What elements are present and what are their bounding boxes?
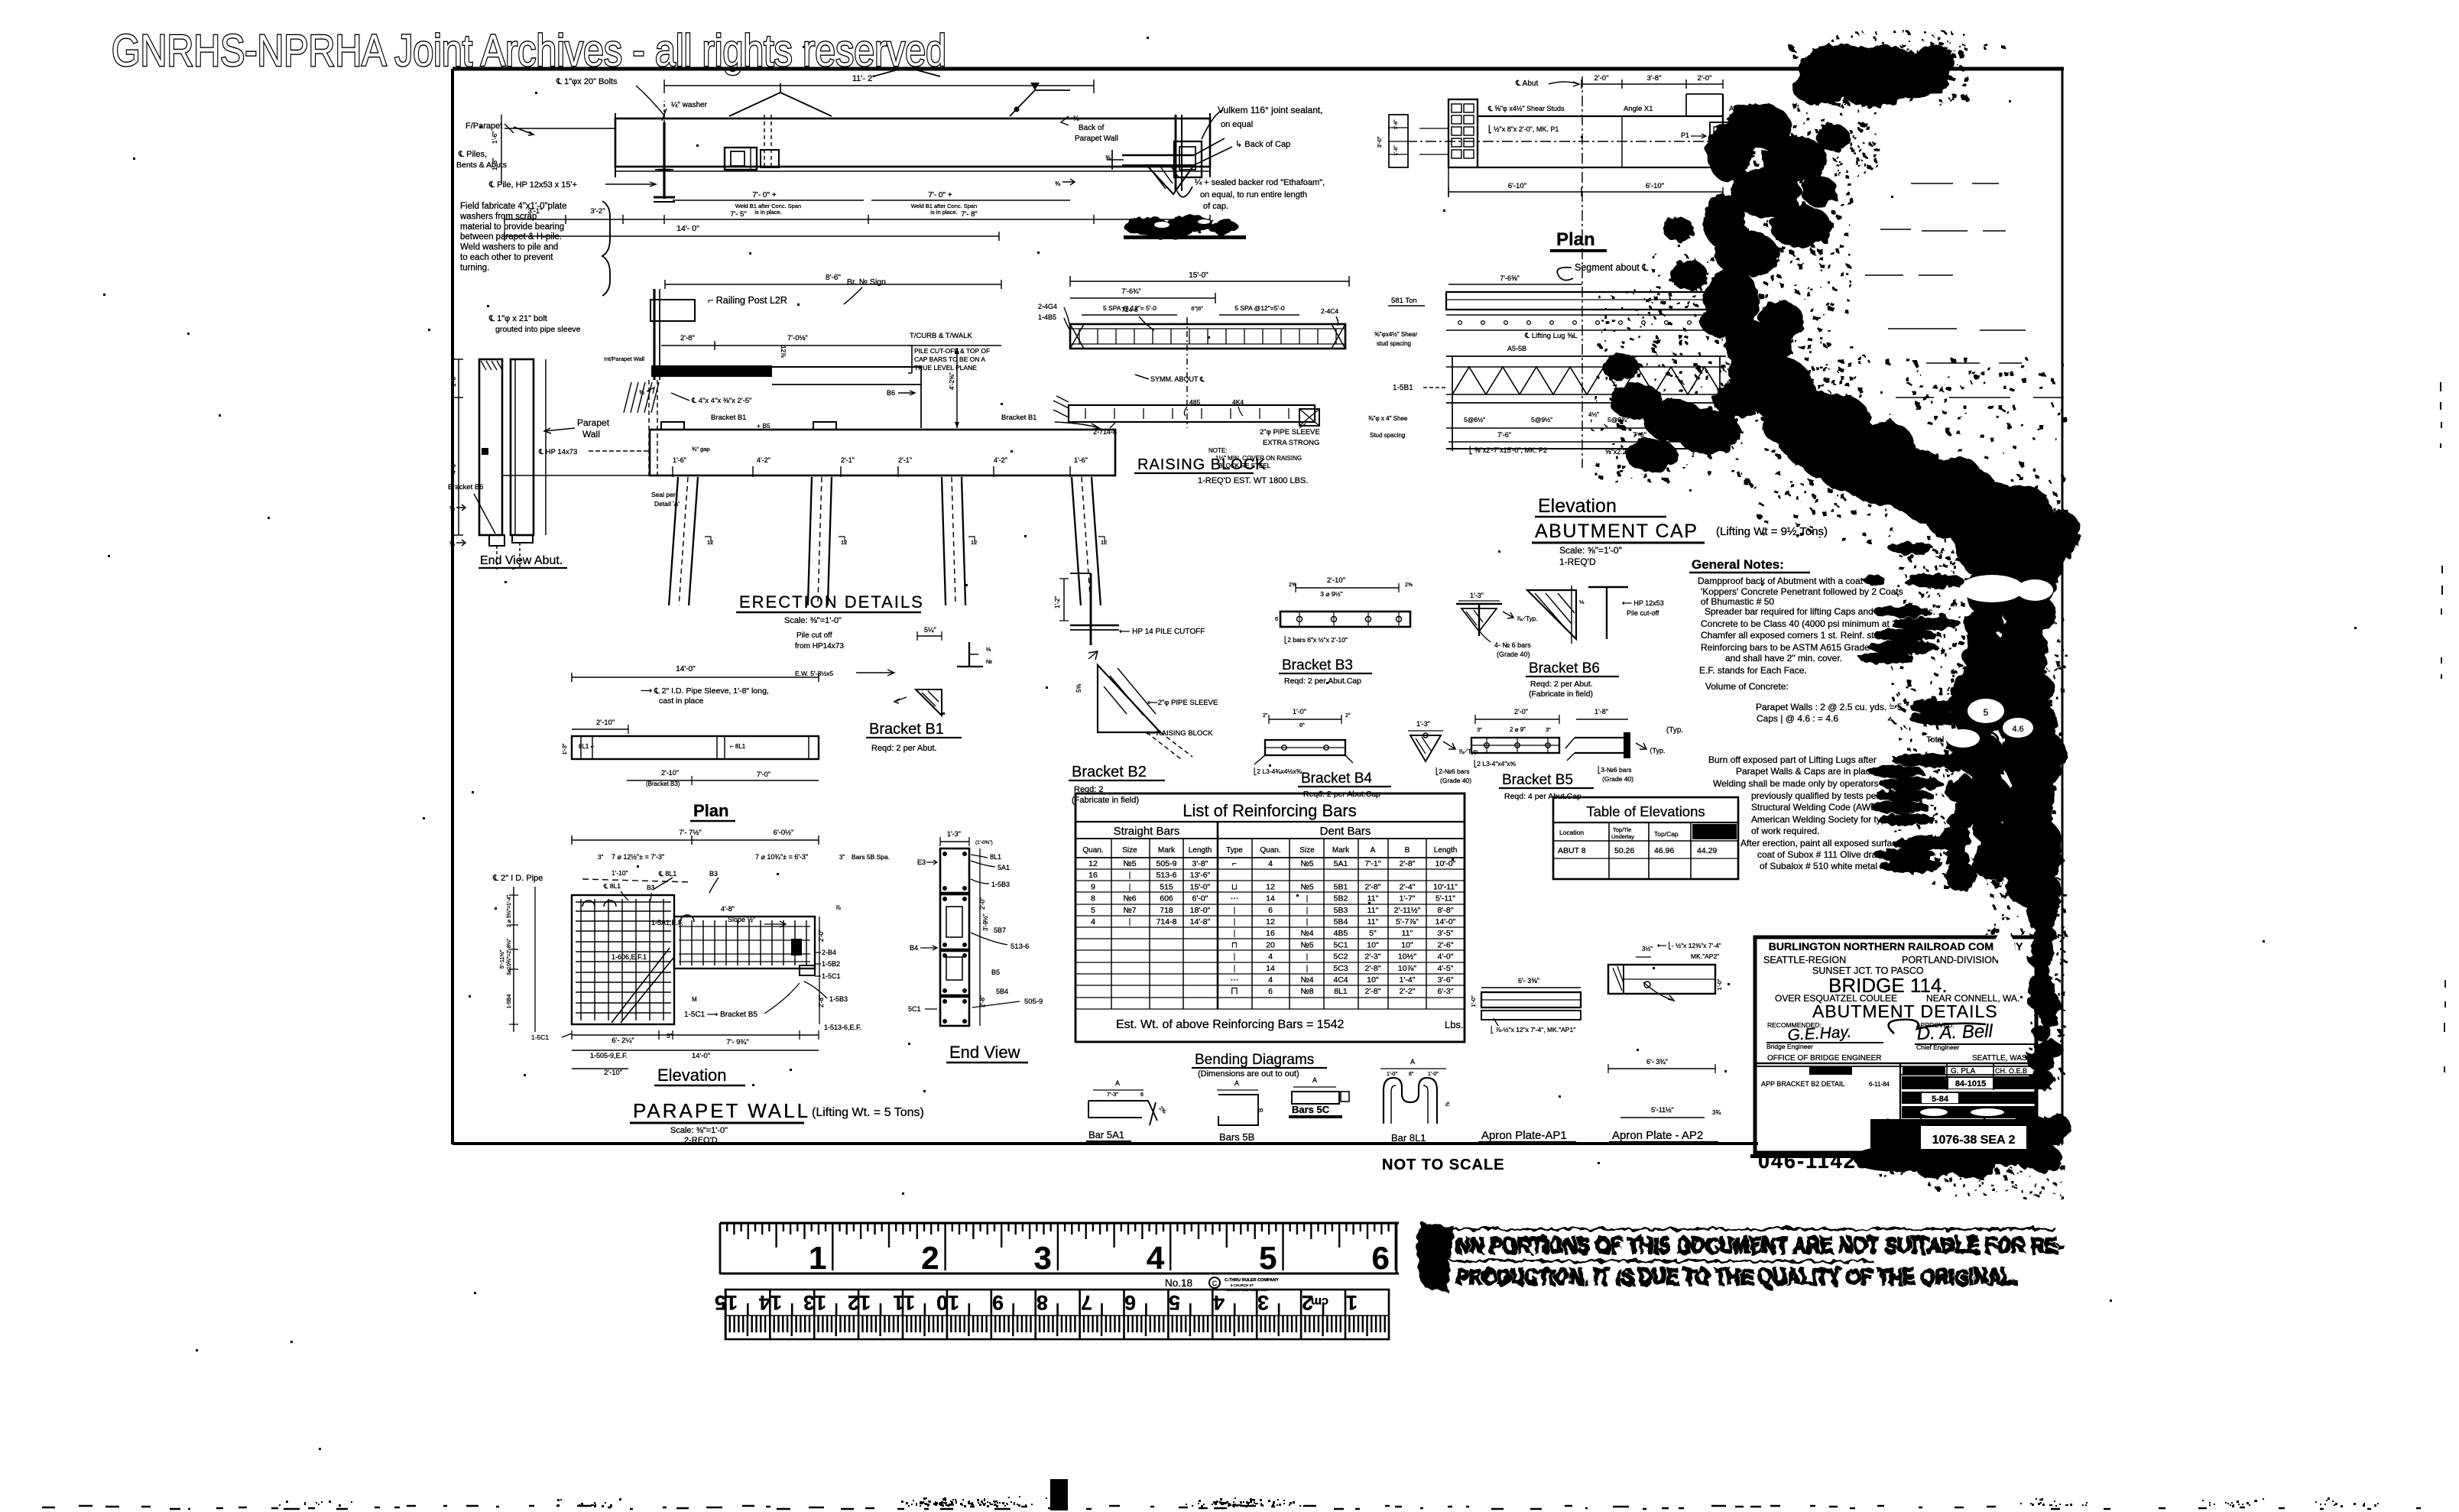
svg-text:3": 3" — [667, 1033, 672, 1040]
reproduction stamp — [1417, 1223, 2064, 1292]
svg-text:|: | — [1234, 906, 1236, 915]
svg-text:Bridge Engineer: Bridge Engineer — [1766, 1043, 1813, 1050]
svg-text:T/CURB & T/WALK: T/CURB & T/WALK — [910, 332, 972, 340]
svg-text:4'-5": 4'-5" — [1438, 964, 1454, 973]
svg-text:⎣ ⅝"x2'-7"x15'-0", MK. P2: ⎣ ⅝"x2'-7"x15'-0", MK. P2 — [1469, 446, 1547, 455]
svg-text:⟵2"φ PIPE SLEEVE: ⟵2"φ PIPE SLEEVE — [1147, 699, 1218, 707]
svg-text:4½": 4½" — [1588, 411, 1599, 418]
svg-text:|: | — [1306, 917, 1309, 926]
svg-text:1: 1 — [1346, 1291, 1358, 1314]
svg-text:Quan.: Quan. — [1260, 846, 1280, 855]
svg-text:2'-3": 2'-3" — [1365, 952, 1381, 962]
svg-text:Mark: Mark — [1332, 846, 1350, 855]
svg-text:14'-0": 14'-0" — [692, 1052, 710, 1060]
svg-text:2'-0": 2'-0" — [818, 930, 825, 942]
svg-text:Detail 'A': Detail 'A' — [654, 500, 680, 508]
svg-text:2'-8": 2'-8" — [1400, 859, 1416, 868]
svg-text:Field fabricate 4"x1'-0"plate: Field fabricate 4"x1'-0"plate — [460, 202, 567, 211]
svg-text:|: | — [1234, 964, 1236, 973]
svg-text:10": 10" — [1367, 940, 1379, 949]
svg-text:5@9½": 5@9½" — [1531, 416, 1552, 423]
svg-text:⟨Typ.: ⟨Typ. — [1650, 747, 1666, 754]
svg-text:1: 1 — [809, 1240, 826, 1276]
svg-text:Bracket B6: Bracket B6 — [1529, 660, 1600, 677]
svg-text:5 SPA @12"=5'-0: 5 SPA @12"=5'-0 — [1234, 304, 1285, 312]
svg-text:on equal, to run entire length: on equal, to run entire length — [1200, 190, 1307, 200]
svg-text:9: 9 — [1091, 882, 1095, 891]
svg-text:3": 3" — [1546, 726, 1551, 733]
svg-text:3": 3" — [839, 854, 845, 861]
svg-text:2'-0": 2'-0" — [1514, 708, 1528, 715]
svg-text:2'-0": 2'-0" — [1594, 74, 1609, 83]
svg-text:5'-11½": 5'-11½" — [498, 949, 505, 969]
svg-text:2'-8": 2'-8" — [1365, 882, 1381, 891]
svg-text:⟵RAISING BLOCK: ⟵RAISING BLOCK — [1146, 729, 1213, 738]
svg-text:3'-6": 3'-6" — [1438, 975, 1454, 985]
note tail smears — [1859, 542, 1964, 873]
svg-text:11: 11 — [893, 1291, 915, 1314]
white bays in blob — [1960, 575, 2024, 602]
svg-text:16: 16 — [1266, 929, 1275, 938]
svg-text:2-REQ'D: 2-REQ'D — [684, 1136, 718, 1145]
svg-text:3 ⌀ 9½": 3 ⌀ 9½" — [1320, 590, 1342, 598]
svg-text:1-REQ'D EST. WT 1800 LBS.: 1-REQ'D EST. WT 1800 LBS. — [1198, 476, 1308, 485]
svg-text:1-REQ'D: 1-REQ'D — [1559, 556, 1596, 567]
svg-text:Table of Elevations: Table of Elevations — [1586, 803, 1705, 819]
svg-text:2-4G4: 2-4G4 — [1038, 303, 1057, 310]
svg-text:2'-6": 2'-6" — [1438, 940, 1454, 949]
svg-text:of work required.: of work required. — [1751, 826, 1819, 836]
svg-text:20: 20 — [1266, 940, 1275, 949]
svg-text:11": 11" — [1367, 894, 1379, 904]
svg-text:4: 4 — [1147, 1240, 1165, 1276]
svg-text:cm: cm — [1311, 1295, 1328, 1308]
svg-text:6-11-84: 6-11-84 — [1869, 1081, 1890, 1088]
svg-text:485: 485 — [1189, 398, 1200, 406]
svg-text:1-5B1: 1-5B1 — [1393, 384, 1413, 392]
svg-text:5B4: 5B4 — [1334, 917, 1348, 926]
svg-text:|: | — [1129, 917, 1131, 926]
svg-text:6'-0": 6'-0" — [1192, 894, 1208, 904]
svg-text:581 Ton: 581 Ton — [1391, 297, 1417, 305]
svg-text:grouted into pipe sleeve: grouted into pipe sleeve — [495, 325, 581, 334]
svg-text:|: | — [1306, 952, 1309, 962]
svg-text:2'-8": 2'-8" — [818, 995, 825, 1007]
svg-text:3¾: 3¾ — [1712, 1109, 1721, 1116]
svg-text:11": 11" — [1367, 906, 1379, 915]
svg-text:APP BRACKET B2 DETAIL: APP BRACKET B2 DETAIL — [1761, 1080, 1845, 1088]
svg-text:11": 11" — [1402, 929, 1413, 938]
svg-text:B4: B4 — [910, 944, 918, 952]
svg-text:6'-0½": 6'-0½" — [774, 829, 794, 837]
svg-text:2'-11½": 2'-11½" — [1394, 906, 1421, 915]
svg-text:1'-3": 1'-3" — [561, 743, 568, 754]
svg-text:Bars 5B Spa.: Bars 5B Spa. — [852, 853, 890, 861]
svg-text:TRUE LEVEL PLANE: TRUE LEVEL PLANE — [914, 364, 977, 372]
svg-text:6: 6 — [1268, 987, 1273, 996]
svg-text:Scale: ⅜"=1'-0": Scale: ⅜"=1'-0" — [670, 1126, 728, 1135]
svg-text:1-5B3: 1-5B3 — [991, 881, 1010, 888]
svg-text:A: A — [1234, 1079, 1239, 1087]
svg-text:2'-1": 2'-1" — [898, 456, 912, 464]
svg-text:2'-10": 2'-10" — [596, 719, 615, 727]
svg-text:6'-10": 6'-10" — [1646, 182, 1664, 190]
svg-text:B: B — [1257, 1108, 1264, 1112]
svg-text:3": 3" — [1477, 726, 1482, 733]
svg-text:4: 4 — [1091, 917, 1095, 926]
svg-text:№4: №4 — [1300, 975, 1313, 985]
svg-text:|: | — [1234, 929, 1236, 938]
svg-text:(Fabricate in field): (Fabricate in field) — [1072, 796, 1139, 805]
svg-text:|: | — [1129, 882, 1131, 891]
svg-text:⅜: ⅜ — [1055, 180, 1061, 187]
svg-text:4C4: 4C4 — [1333, 975, 1348, 985]
svg-text:SEATTLE, WASH.: SEATTLE, WASH. — [1972, 1054, 2035, 1063]
svg-text:10½": 10½" — [1398, 952, 1416, 962]
svg-text:Back of: Back of — [1079, 124, 1105, 132]
svg-text:Dampproof back of Abutment wi: Dampproof back of Abutment with a coat o… — [1698, 576, 1873, 586]
svg-text:℄ 4"x 4"x ⅜"x 2'-5": ℄ 4"x 4"x ⅜"x 2'-5" — [691, 397, 751, 405]
svg-text:2": 2" — [1345, 713, 1351, 719]
svg-text:3'-8": 3'-8" — [1647, 74, 1662, 83]
svg-text:2'-8": 2'-8" — [1365, 987, 1381, 996]
svg-text:Lbs.: Lbs. — [1445, 1019, 1464, 1030]
svg-text:1-5C1: 1-5C1 — [822, 972, 841, 980]
svg-text:046-11428: 046-11428 — [1758, 1150, 1870, 1173]
svg-text:2'-0": 2'-0" — [1698, 74, 1712, 83]
svg-text:⋯: ⋯ — [1231, 894, 1239, 904]
svg-text:6 CHURCH ST: 6 CHURCH ST — [1231, 1283, 1254, 1287]
svg-text:Chief Engineer: Chief Engineer — [1916, 1043, 1959, 1051]
svg-text:G.E.Hay.: G.E.Hay. — [1787, 1024, 1852, 1044]
svg-text:1'-0": 1'-0" — [450, 375, 457, 387]
svg-text:7'-0⅛": 7'-0⅛" — [787, 334, 808, 342]
blob over title block bottom — [1879, 1114, 2071, 1199]
inch ruler — [720, 1223, 1399, 1292]
svg-text:4'-2": 4'-2" — [757, 456, 770, 464]
svg-text:10": 10" — [1401, 940, 1413, 949]
svg-text:714-8: 714-8 — [1121, 306, 1138, 313]
svg-text:№5: №5 — [1123, 859, 1136, 868]
svg-text:3½": 3½" — [1642, 946, 1653, 952]
svg-text:5B1: 5B1 — [1334, 882, 1348, 891]
apron plate AP1 — [1470, 977, 1581, 1142]
field fabricate note — [459, 201, 610, 296]
svg-text:Bents & Abuts: Bents & Abuts — [456, 161, 507, 170]
svg-text:3 ⌀ 5¼"=1'-4": 3 ⌀ 5¼"=1'-4" — [507, 894, 512, 927]
svg-text:50.26: 50.26 — [1614, 846, 1634, 855]
svg-text:Wall: Wall — [582, 429, 600, 440]
svg-text:Reinforcing bars to be ASTM A6: Reinforcing bars to be ASTM A615 Grade 4… — [1701, 642, 1883, 653]
svg-text:℄ 2" I D. Pipe: ℄ 2" I D. Pipe — [492, 874, 543, 883]
svg-text:5@6½": 5@6½" — [1464, 416, 1485, 423]
svg-text:MK."AP2": MK."AP2" — [1691, 952, 1719, 960]
svg-text:⅞⟋Typ.: ⅞⟋Typ. — [1458, 748, 1479, 755]
046 number — [1750, 1147, 1949, 1173]
svg-text:CH. O.E.B: CH. O.E.B — [1995, 1067, 2027, 1075]
svg-text:14'-0": 14'-0" — [676, 665, 696, 673]
svg-text:515: 515 — [1160, 882, 1173, 891]
svg-text:on equal: on equal — [1221, 120, 1253, 129]
svg-text:Parapet Walls : 2 @ 2.5 cu. yd: Parapet Walls : 2 @ 2.5 cu. yds. = 5 — [1756, 702, 1903, 712]
svg-text:2-B4: 2-B4 — [822, 949, 836, 956]
svg-text:4'-2⅝": 4'-2⅝" — [949, 372, 955, 390]
svg-text:⎣2 L3-4"x4"x⅝: ⎣2 L3-4"x4"x⅝ — [1474, 759, 1517, 768]
svg-text:3'-2": 3'-2" — [591, 207, 605, 216]
svg-text:⅔: ⅔ — [986, 646, 991, 653]
svg-text:(Dimensions are out to out): (Dimensions are out to out) — [1198, 1069, 1299, 1079]
bracket B5 — [1471, 708, 1666, 801]
svg-text:8: 8 — [1036, 1291, 1048, 1314]
svg-text:PORTLAND-DIVISION: PORTLAND-DIVISION — [1902, 955, 1999, 965]
svg-text:1'-4": 1'-4" — [1400, 975, 1416, 985]
svg-text:5'-7⅞": 5'-7⅞" — [1396, 917, 1419, 926]
svg-text:(Grade 40): (Grade 40) — [1440, 777, 1471, 784]
svg-text:|: | — [1306, 964, 1309, 973]
svg-text:⎣2 bars 6"x ½"x 2'-10": ⎣2 bars 6"x ½"x 2'-10" — [1284, 635, 1348, 644]
svg-text:7'- 0" +: 7'- 0" + — [752, 191, 776, 200]
svg-text:4K4: 4K4 — [1232, 398, 1244, 406]
bottom edge noise — [42, 1479, 2421, 1510]
svg-text:1'-7": 1'-7" — [1400, 894, 1416, 904]
svg-text:F/Parapet: F/Parapet — [466, 122, 502, 131]
svg-text:Vulkem 116° joint sealant,: Vulkem 116° joint sealant, — [1218, 105, 1323, 115]
svg-text:5: 5 — [1091, 906, 1095, 915]
svg-text:|: | — [1234, 952, 1236, 962]
svg-text:1'-3": 1'-3" — [947, 830, 961, 838]
svg-text:(1'-0¾"): (1'-0¾") — [975, 840, 993, 845]
svg-text:12: 12 — [1101, 539, 1107, 546]
svg-text:2'-0": 2'-0" — [979, 897, 986, 910]
svg-text:Parapet Walls & Caps are in pl: Parapet Walls & Caps are in place. — [1736, 766, 1878, 777]
svg-text:8": 8" — [1409, 1072, 1414, 1077]
svg-text:No.18: No.18 — [1165, 1277, 1192, 1289]
svg-text:Type: Type — [1226, 846, 1243, 855]
svg-text:3'-0": 3'-0" — [1376, 136, 1383, 148]
svg-text:8: 8 — [1091, 894, 1095, 904]
svg-text:ABUTMENT CAP: ABUTMENT CAP — [1535, 521, 1698, 542]
svg-text:⨅: ⨅ — [1231, 987, 1238, 996]
svg-text:Bracket B1: Bracket B1 — [1001, 414, 1036, 422]
svg-text:Scale: ⅝"=1'-0": Scale: ⅝"=1'-0" — [1559, 545, 1622, 556]
svg-text:6'-3": 6'-3" — [1438, 987, 1454, 996]
abutment cap elevation — [1368, 76, 1726, 468]
svg-text:10⅞": 10⅞" — [1398, 964, 1416, 973]
svg-text:2⅝: 2⅝ — [1405, 582, 1413, 588]
svg-text:2'-1": 2'-1" — [841, 456, 855, 464]
svg-text:1'-2": 1'-2" — [1054, 596, 1061, 608]
svg-text:505-9: 505-9 — [1157, 859, 1177, 868]
scanner artifact blob — [1591, 31, 2081, 1089]
svg-text:A5-5B: A5-5B — [1507, 345, 1526, 352]
svg-text:B3: B3 — [709, 870, 718, 878]
svg-text:7'-6¾": 7'-6¾" — [1121, 287, 1140, 295]
sheet border — [453, 67, 2064, 71]
svg-text:1'-0": 1'-0" — [1428, 1072, 1439, 1077]
svg-text:1-5C1: 1-5C1 — [531, 1033, 549, 1041]
svg-text:5⅝: 5⅝ — [1075, 684, 1082, 693]
svg-text:Seal per: Seal per — [651, 491, 676, 498]
svg-text:⅞: ⅞ — [835, 904, 841, 911]
svg-text:Parapet: Parapet — [577, 417, 610, 428]
svg-text:(Bracket B3): (Bracket B3) — [646, 780, 680, 787]
svg-text:№5: №5 — [1300, 882, 1313, 891]
svg-text:2 ⌀ 9": 2 ⌀ 9" — [1510, 726, 1526, 733]
svg-text:2: 2 — [921, 1240, 939, 1276]
svg-text:3: 3 — [1034, 1240, 1052, 1276]
svg-text:3'-5": 3'-5" — [1438, 929, 1454, 938]
svg-text:Length: Length — [1434, 846, 1458, 855]
cm ruler inverted — [715, 1290, 1389, 1339]
svg-text:(Grade 40): (Grade 40) — [1602, 775, 1633, 783]
svg-text:4: 4 — [1268, 975, 1273, 985]
svg-text:2'-8": 2'-8" — [1365, 964, 1381, 973]
svg-text:Elevation: Elevation — [657, 1066, 727, 1085]
svg-text:2'-10": 2'-10" — [604, 1069, 622, 1077]
svg-text:C-THRU RULER COMPANY: C-THRU RULER COMPANY — [1225, 1278, 1279, 1283]
svg-text:7'-0": 7'-0" — [757, 771, 770, 778]
svg-text:℄ 1"φx 20" Bolts: ℄ 1"φx 20" Bolts — [556, 77, 618, 86]
svg-text:4'-8": 4'-8" — [721, 905, 735, 913]
svg-text:1-5C1 ⟶ Bracket B5: 1-5C1 ⟶ Bracket B5 — [684, 1011, 757, 1019]
svg-text:of Bhumastic # 50: of Bhumastic # 50 — [1701, 596, 1774, 607]
HP14 pile cutoff — [1054, 573, 1205, 645]
svg-text:2'-8": 2'-8" — [680, 334, 695, 342]
svg-text:⟵ ⎣- ½"x 12⅝"x 7'-4": ⟵ ⎣- ½"x 12⅝"x 7'-4" — [1657, 941, 1721, 950]
svg-text:⌐: ⌐ — [1232, 859, 1237, 868]
svg-text:4- № 6 bars: 4- № 6 bars — [1494, 641, 1531, 649]
svg-text:⅜: ⅜ — [1073, 115, 1079, 122]
svg-text:Bars 5C: Bars 5C — [1292, 1104, 1330, 1115]
bending diagrams — [1086, 1052, 1451, 1144]
svg-text:5'-11": 5'-11" — [1435, 894, 1455, 904]
svg-text:M: M — [692, 996, 697, 1003]
svg-text:List of Reinforcing Bars: List of Reinforcing Bars — [1182, 801, 1356, 820]
svg-text:washers from scrap: washers from scrap — [459, 212, 537, 221]
bracket B2 detail — [1069, 651, 1218, 805]
svg-text:1076-38 SEA 2: 1076-38 SEA 2 — [1932, 1134, 2016, 1147]
svg-text:A: A — [1312, 1076, 1317, 1084]
svg-text:5: 5 — [1259, 1240, 1277, 1276]
svg-text:℄ 1"φ x 21" bolt: ℄ 1"φ x 21" bolt — [488, 314, 547, 323]
svg-text:6: 6 — [1124, 1291, 1136, 1314]
svg-text:⎣3-№6 bars: ⎣3-№6 bars — [1598, 765, 1632, 774]
svg-text:|: | — [1129, 871, 1131, 880]
svg-text:18'-0": 18'-0" — [1190, 906, 1211, 915]
svg-text:A: A — [1410, 1058, 1415, 1066]
svg-text:℄ Lifting Lug ⅝L: ℄ Lifting Lug ⅝L — [1524, 332, 1577, 340]
svg-text:7'-3": 7'-3" — [1107, 1091, 1118, 1098]
svg-text:4: 4 — [1268, 859, 1273, 868]
svg-text:⌐ 8L1: ⌐ 8L1 — [730, 743, 746, 750]
svg-text:2'-2": 2'-2" — [1400, 987, 1416, 996]
bracket B4 — [1254, 708, 1479, 799]
svg-text:of cap.: of cap. — [1203, 202, 1228, 211]
svg-text:C: C — [1212, 1280, 1218, 1287]
svg-text:Straight Bars: Straight Bars — [1114, 825, 1180, 838]
svg-text:513-6: 513-6 — [1011, 943, 1029, 951]
svg-text:6'- 3¾": 6'- 3¾" — [1646, 1058, 1668, 1066]
svg-text:44.29: 44.29 — [1697, 846, 1717, 855]
svg-text:|: | — [1234, 917, 1236, 926]
svg-text:Bracket B4: Bracket B4 — [1301, 771, 1372, 787]
svg-text:714-8: 714-8 — [1157, 917, 1177, 926]
svg-text:Size: Size — [1299, 846, 1315, 855]
svg-text:¾" gap: ¾" gap — [692, 446, 710, 453]
raising block — [1038, 271, 1349, 485]
svg-text:Parapet Wall: Parapet Wall — [1075, 135, 1118, 143]
svg-text:1'-10": 1'-10" — [612, 869, 628, 877]
svg-text:Plan: Plan — [693, 801, 728, 820]
svg-text:8L1 ⌐: 8L1 ⌐ — [579, 743, 595, 750]
svg-text:Bracket B1: Bracket B1 — [869, 721, 944, 738]
svg-text:8L1: 8L1 — [1334, 987, 1348, 996]
svg-text:Underlay: Underlay — [1611, 833, 1634, 840]
svg-text:previously qualified by tests: previously qualified by tests per — [1751, 790, 1879, 801]
svg-text:PRODUCTION. IT IS DUE TO THE Q: PRODUCTION. IT IS DUE TO THE QUALITY OF … — [1456, 1265, 2018, 1290]
erection details title — [736, 592, 992, 753]
svg-text:1'-8": 1'-8" — [1594, 708, 1608, 715]
svg-text:Quan.: Quan. — [1082, 846, 1103, 855]
svg-text:Top/Cap: Top/Cap — [1654, 830, 1679, 838]
svg-text:is in place.: is in place. — [754, 209, 781, 216]
svg-text:(Typ.: (Typ. — [1666, 726, 1683, 735]
svg-text:Pile cut off: Pile cut off — [796, 631, 832, 640]
svg-text:Bracket B5: Bracket B5 — [1502, 772, 1573, 788]
svg-text:℄ HP 14x73: ℄ HP 14x73 — [538, 448, 577, 456]
svg-text:14'-0": 14'-0" — [1435, 917, 1456, 926]
svg-text:16: 16 — [1088, 871, 1098, 880]
svg-text:11": 11" — [1367, 917, 1379, 926]
svg-text:℄ 8L1: ℄ 8L1 — [603, 882, 621, 890]
svg-text:⟶ ℄ 2" I.D. Pipe Sleeve, 1'-8: ⟶ ℄ 2" I.D. Pipe Sleeve, 1'-8" long, — [641, 686, 769, 696]
svg-text:2"φ PIPE SLEEVE: 2"φ PIPE SLEEVE — [1260, 428, 1320, 436]
bracket B6 — [1526, 586, 1664, 699]
bracket B3 — [1275, 576, 1537, 686]
svg-text:12: 12 — [1266, 917, 1275, 926]
svg-text:End View Abut.: End View Abut. — [480, 554, 563, 567]
svg-text:+ B5: + B5 — [757, 422, 770, 430]
svg-text:SEATTLE-REGION: SEATTLE-REGION — [1763, 955, 1846, 965]
svg-text:General Notes:: General Notes: — [1692, 557, 1784, 572]
svg-text:and shall have 2" min. cover.: and shall have 2" min. cover. — [1725, 653, 1842, 664]
svg-text:Bending Diagrams: Bending Diagrams — [1195, 1052, 1314, 1068]
svg-text:1-5B4: 1-5B4 — [507, 994, 512, 1009]
svg-text:℄ 8L1: ℄ 8L1 — [658, 870, 676, 878]
svg-text:ERECTION DETAILS: ERECTION DETAILS — [739, 592, 924, 612]
svg-text:A: A — [1115, 1079, 1120, 1087]
svg-text:Bars 5B: Bars 5B — [1219, 1131, 1254, 1143]
svg-text:PILE CUT-OFF & TOP OF: PILE CUT-OFF & TOP OF — [914, 347, 990, 355]
svg-text:7: 7 — [1081, 1291, 1092, 1314]
svg-text:46.96: 46.96 — [1654, 846, 1674, 855]
svg-text:7'- 5": 7'- 5" — [730, 210, 747, 219]
svg-text:ABUTMENT DETAILS: ABUTMENT DETAILS — [1812, 1001, 1998, 1021]
svg-text:⅝: ⅝ — [1105, 154, 1111, 161]
svg-text:Dent Bars: Dent Bars — [1320, 825, 1371, 838]
svg-text:⊔: ⊔ — [1231, 882, 1238, 891]
svg-text:1'-0": 1'-0" — [1716, 978, 1723, 990]
svg-text:1-505-9,E.F.: 1-505-9,E.F. — [590, 1052, 628, 1059]
svg-text:12: 12 — [1088, 859, 1098, 868]
svg-text:14: 14 — [1266, 894, 1275, 904]
svg-text:℄ ⅝"φ x4½" Shear Studs: ℄ ⅝"φ x4½" Shear Studs — [1487, 105, 1565, 112]
svg-text:5'-11½": 5'-11½" — [1651, 1106, 1674, 1114]
svg-text:PARAPET WALL: PARAPET WALL — [633, 1099, 810, 1122]
svg-text:Int/Parapet Wall: Int/Parapet Wall — [604, 355, 644, 362]
svg-text:EXTRA STRONG: EXTRA STRONG — [1263, 439, 1319, 447]
svg-text:11'- 2": 11'- 2" — [852, 74, 875, 83]
